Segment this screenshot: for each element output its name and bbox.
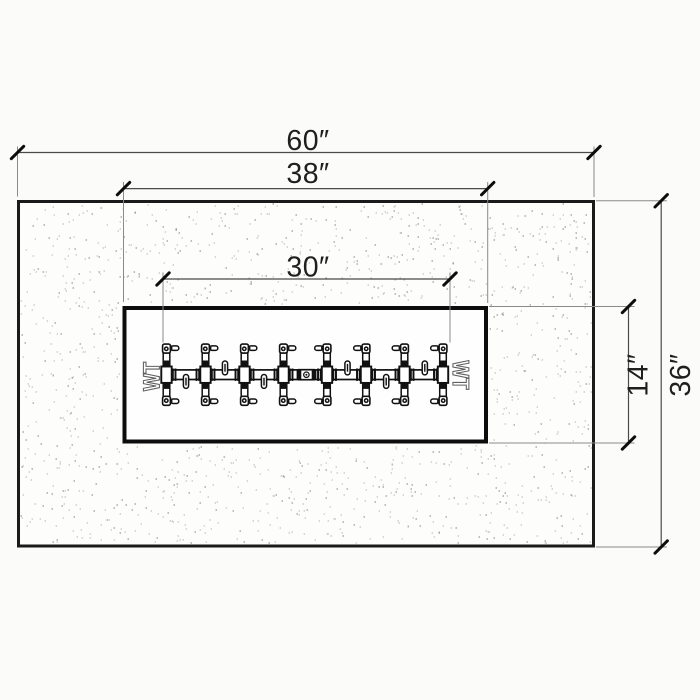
30in tick left — [157, 273, 169, 285]
38in tick right — [482, 182, 494, 194]
center gas inlet fitting — [297, 370, 317, 380]
60in tick left — [11, 146, 23, 158]
svg-text:60″: 60″ — [286, 125, 329, 157]
burner pipe — [161, 370, 448, 380]
pipe coupling left of jet 3 — [235, 369, 240, 381]
concrete stipple texture dots — [21, 205, 592, 543]
burner jet cross 2 — [200, 344, 218, 405]
30in tick right — [444, 273, 456, 285]
concrete stipple texture dots (darker) — [21, 204, 591, 543]
orifice fitting below pipe at x=386.2 — [384, 375, 389, 389]
fire pit table top (60in x 36in) — [19, 202, 594, 547]
burner jet cross 7 — [392, 344, 410, 405]
burner jet cross 1 — [161, 344, 179, 405]
60in tick right — [588, 146, 600, 158]
pipe coupling left of jet 2 — [196, 369, 201, 381]
38in tick left — [117, 182, 129, 194]
14in tick bottom — [622, 437, 634, 449]
burner jet cross 3 — [239, 344, 256, 405]
WT logo left (Warming Trends) — [143, 362, 159, 391]
38in dimension extension line left — [123, 182, 125, 302]
pipe coupling right of jet 4 — [289, 369, 294, 381]
36in dimension extension line bottom — [596, 546, 667, 548]
30in dimension extension line right — [449, 273, 451, 343]
burner pan (38in x 14in) — [125, 308, 487, 442]
svg-text:30″: 30″ — [286, 251, 329, 283]
orifice fitting above pipe at x=347.5 — [345, 361, 350, 375]
svg-text:14″: 14″ — [623, 353, 655, 396]
60in dimension line — [18, 152, 595, 154]
burner jet cross 4 — [278, 344, 296, 405]
60in dimension extension line left — [17, 147, 19, 197]
orifice fitting above pipe at x=225.0 — [222, 361, 227, 375]
38in dimension extension line right — [487, 182, 489, 303]
pipe coupling right of jet 2 — [211, 369, 216, 381]
WT logo right (Warming Trends) — [453, 361, 469, 390]
36in tick top — [655, 195, 667, 207]
svg-text:36″: 36″ — [665, 353, 697, 396]
30in dimension extension line left — [162, 273, 164, 343]
burner jet cross 8 — [431, 344, 449, 405]
38in dimension line — [124, 188, 488, 190]
60in dimension extension line right — [593, 147, 595, 198]
30in dimension line — [163, 278, 450, 280]
36in dimension extension line top — [596, 200, 667, 202]
pipe coupling left of jet 4 — [274, 369, 279, 381]
pipe coupling left of jet 5 — [317, 369, 322, 381]
14in dimension line — [628, 307, 630, 444]
orifice fitting below pipe at x=264.0 — [261, 375, 266, 389]
pipe coupling right of jet 1 — [172, 369, 177, 381]
pipe coupling right of jet 5 — [332, 369, 337, 381]
14in tick top — [622, 300, 634, 312]
14in dimension extension line top — [489, 306, 635, 308]
pipe coupling right of jet 7 — [410, 369, 415, 381]
pipe coupling left of jet 6 — [356, 369, 361, 381]
pipe coupling left of jet 8 — [433, 369, 438, 381]
burner jet cross 5 — [315, 344, 333, 405]
36in tick bottom — [655, 541, 667, 553]
svg-text:38″: 38″ — [286, 158, 329, 190]
burner jet cross 6 — [354, 344, 372, 405]
orifice fitting below pipe at x=186.0 — [183, 375, 188, 389]
pipe coupling right of jet 6 — [371, 369, 376, 381]
orifice fitting above pipe at x=424.8 — [422, 361, 427, 375]
14in dimension extension line bottom — [489, 442, 635, 444]
pipe coupling left of jet 7 — [395, 369, 400, 381]
pipe coupling right of jet 3 — [250, 369, 255, 381]
36in dimension line — [660, 201, 662, 547]
